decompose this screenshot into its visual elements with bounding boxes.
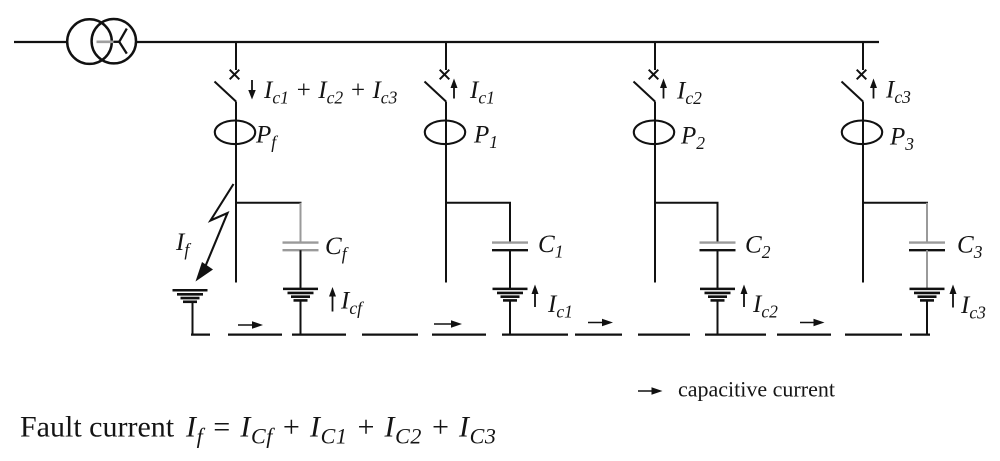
- svg-text:If​ = ICf​ + IC1​ + IC2​ + IC3: If​ = ICf​ + IC1​ + IC2​ + IC3​: [185, 411, 497, 449]
- svg-text:C2​: C2​: [745, 232, 771, 263]
- svg-text:C3​: C3​: [957, 232, 983, 263]
- svg-text:Ic1​: Ic1​: [469, 77, 495, 108]
- svg-text:Ic3​: Ic3​: [960, 292, 986, 323]
- svg-text:P1​: P1​: [473, 122, 498, 153]
- svg-text:P2​: P2​: [680, 123, 705, 154]
- svg-text:Fault current: Fault current: [20, 411, 175, 444]
- svg-text:Ic1​ + Ic2​ + Ic3​: Ic1​ + Ic2​ + Ic3​: [263, 77, 398, 108]
- svg-text:Ic1​: Ic1​: [547, 291, 573, 322]
- svg-text:Cf​: Cf​: [325, 233, 349, 264]
- svg-text:P3​: P3​: [889, 124, 914, 155]
- svg-text:If​: If​: [175, 229, 191, 260]
- svg-text:Pf​: Pf​: [255, 122, 278, 153]
- svg-text:Ic2​: Ic2​: [676, 78, 702, 109]
- svg-text:Ic3​: Ic3​: [885, 77, 911, 108]
- svg-text:Ic2​: Ic2​: [752, 291, 778, 322]
- svg-text:C1​: C1​: [538, 231, 563, 262]
- svg-text:Icf​: Icf​: [340, 288, 364, 319]
- svg-text:capacitive current: capacitive current: [678, 377, 835, 402]
